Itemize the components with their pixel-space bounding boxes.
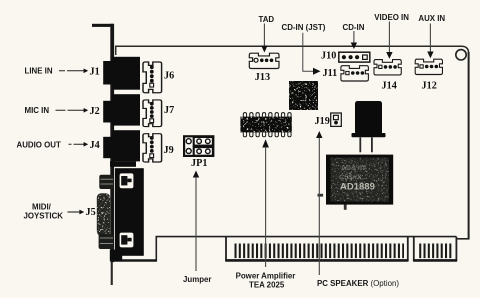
svg-text:Jumper: Jumper bbox=[183, 275, 212, 284]
edge connector tongue 2 bbox=[414, 237, 457, 261]
svg-text:J2: J2 bbox=[90, 106, 100, 117]
amplifier U2 TEA2025 body bbox=[240, 117, 291, 133]
connector J12 bbox=[415, 59, 442, 74]
svg-text:Power Amplifier: Power Amplifier bbox=[236, 272, 296, 281]
arrow AUDIO OUT bbox=[69, 142, 89, 147]
arrow MIC IN bbox=[56, 108, 89, 113]
connector J13 bbox=[249, 53, 279, 68]
jack J1 (line in) bbox=[103, 57, 140, 90]
arrow MIDI/JOYSTICK bbox=[68, 210, 85, 215]
svg-text:JOYSTICK: JOYSTICK bbox=[24, 212, 64, 221]
svg-text:J14: J14 bbox=[382, 80, 397, 91]
svg-text:J5: J5 bbox=[86, 207, 96, 218]
gold fingers long segment bbox=[235, 244, 405, 259]
label Power Amplifier TEA 2025 bbox=[236, 272, 296, 290]
chip U3 (QFP) bbox=[289, 81, 318, 110]
svg-text:J1: J1 bbox=[90, 67, 100, 78]
PCB right edge bbox=[468, 52, 470, 239]
jack J2 (mic in) bbox=[103, 94, 140, 125]
capacitor C1 bbox=[352, 101, 386, 152]
arrow VIDEO IN bbox=[386, 22, 392, 59]
svg-text:MIDI/: MIDI/ bbox=[32, 203, 52, 212]
gold fingers short segment bbox=[419, 244, 452, 259]
arrow AUX IN bbox=[427, 24, 433, 59]
svg-text:J11: J11 bbox=[323, 68, 338, 79]
svg-text:AD&%#: AD&%# bbox=[341, 165, 366, 172]
jack J4 (audio out) bbox=[103, 130, 140, 161]
label MIDI/JOYSTICK bbox=[24, 203, 64, 221]
amplifier U2 TEA2025 pins bottom bbox=[243, 131, 291, 136]
arrow PC SPEAKER bbox=[316, 131, 322, 275]
J5 jack screw top bbox=[120, 173, 134, 188]
connector J9 bbox=[143, 134, 162, 162]
svg-text:TEA 2025: TEA 2025 bbox=[249, 280, 285, 289]
connector J5 body bbox=[110, 168, 144, 261]
connector J10 bbox=[339, 52, 370, 62]
svg-text:AUDIO OUT: AUDIO OUT bbox=[17, 141, 61, 150]
svg-text:J13: J13 bbox=[255, 72, 270, 83]
mounting bracket bbox=[110, 24, 114, 285]
edge connector tongue 1 bbox=[226, 237, 408, 261]
connector J7 bbox=[143, 100, 162, 127]
connector J5 hex nut bottom bbox=[99, 234, 114, 249]
svg-text:CD-IN (JST): CD-IN (JST) bbox=[282, 23, 326, 32]
codec chip U1 AD1889 bbox=[326, 155, 393, 205]
mounting hole bbox=[456, 50, 466, 60]
jack spacer bar bbox=[110, 161, 136, 166]
svg-text:LINE IN: LINE IN bbox=[25, 67, 53, 76]
svg-text:J12: J12 bbox=[422, 81, 437, 92]
connector J5 D-shell bbox=[97, 193, 110, 236]
svg-text:VIDEO IN: VIDEO IN bbox=[374, 13, 409, 22]
arrow CD-IN bbox=[351, 31, 357, 49]
svg-text:J6: J6 bbox=[164, 71, 174, 82]
J5 jack screw bottom bbox=[120, 233, 134, 248]
arrow Power Amplifier bbox=[262, 139, 269, 267]
svg-text:PC SPEAKER (Option): PC SPEAKER (Option) bbox=[317, 279, 399, 288]
svg-text:J4: J4 bbox=[90, 140, 100, 151]
bracket top hook bbox=[92, 24, 114, 27]
svg-text:C5$#X: C5$#X bbox=[339, 173, 362, 182]
connector J11 bbox=[341, 66, 368, 81]
arrow TAD bbox=[261, 24, 267, 53]
PCB bottom outline bbox=[114, 237, 457, 261]
svg-text:AD1889: AD1889 bbox=[340, 182, 375, 193]
arrow LINE IN bbox=[59, 69, 88, 74]
svg-text:J9: J9 bbox=[164, 145, 174, 156]
connector J5 hex nut top bbox=[99, 175, 113, 189]
arrow Jumper bbox=[193, 171, 199, 272]
svg-text:AUX IN: AUX IN bbox=[418, 14, 445, 23]
arrow to J11 bbox=[303, 33, 321, 75]
svg-text:MIC IN: MIC IN bbox=[25, 106, 50, 115]
jumper block JP1 bbox=[184, 136, 213, 156]
svg-text:TAD: TAD bbox=[259, 15, 275, 24]
svg-text:CD-IN: CD-IN bbox=[343, 23, 365, 32]
connector J6 bbox=[143, 62, 162, 93]
codec chip U1 AD1889 leads bbox=[318, 194, 347, 210]
svg-text:JP1: JP1 bbox=[191, 158, 207, 169]
PCB top edge bbox=[116, 46, 469, 55]
svg-text:J19: J19 bbox=[315, 116, 330, 127]
svg-text:J10: J10 bbox=[321, 51, 336, 62]
connector J19 bbox=[331, 113, 342, 126]
svg-text:J7: J7 bbox=[164, 105, 174, 116]
amplifier U2 TEA2025 pins top bbox=[243, 113, 291, 118]
connector J14 bbox=[374, 60, 401, 75]
